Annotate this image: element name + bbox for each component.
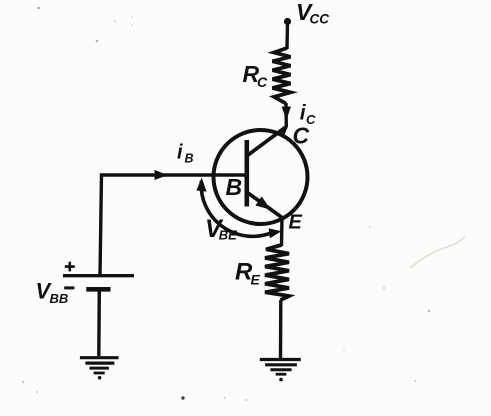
node VCC terminal dot [284,18,291,25]
svg-text:BB: BB [50,291,69,306]
svg-text:i: i [177,142,183,164]
svg-text:B: B [226,174,243,200]
svg-text:E: E [289,212,303,234]
label iC [300,101,316,127]
label VCC [296,0,329,27]
wire emitter to RE [280,216,284,246]
transistor Q1 circle [214,130,308,224]
svg-text:E: E [251,272,261,288]
battery VBB plate - [86,287,110,292]
label RE [235,259,261,288]
minus sign [64,286,74,289]
resistor RC [273,48,291,104]
wire RC to collector with current arrow iC [283,103,286,134]
wire battery to ground [97,290,101,356]
svg-text:CC: CC [310,12,330,27]
svg-text:BE: BE [219,228,237,243]
label RC [243,61,269,90]
svg-text:B: B [185,152,194,166]
battery VBB plate + [63,274,134,277]
svg-text:C: C [257,74,268,90]
transistor collector diagonal [248,127,287,156]
wire VCC to RC [285,22,289,49]
wire RE to ground [279,300,283,358]
ground (left) [80,358,119,380]
label VBB [36,279,69,307]
label iB [177,142,194,166]
wire base lead with arrow iB [100,173,246,177]
plus sign [65,262,75,272]
transistor emitter diagonal with arrow [248,193,282,218]
label VBE [205,215,237,243]
resistor RE [265,245,289,300]
wire left vertical from base lead to battery [100,174,102,277]
ground (right) [260,360,301,382]
transistor base bar [245,140,250,207]
arc VBE with arrows [201,181,272,236]
